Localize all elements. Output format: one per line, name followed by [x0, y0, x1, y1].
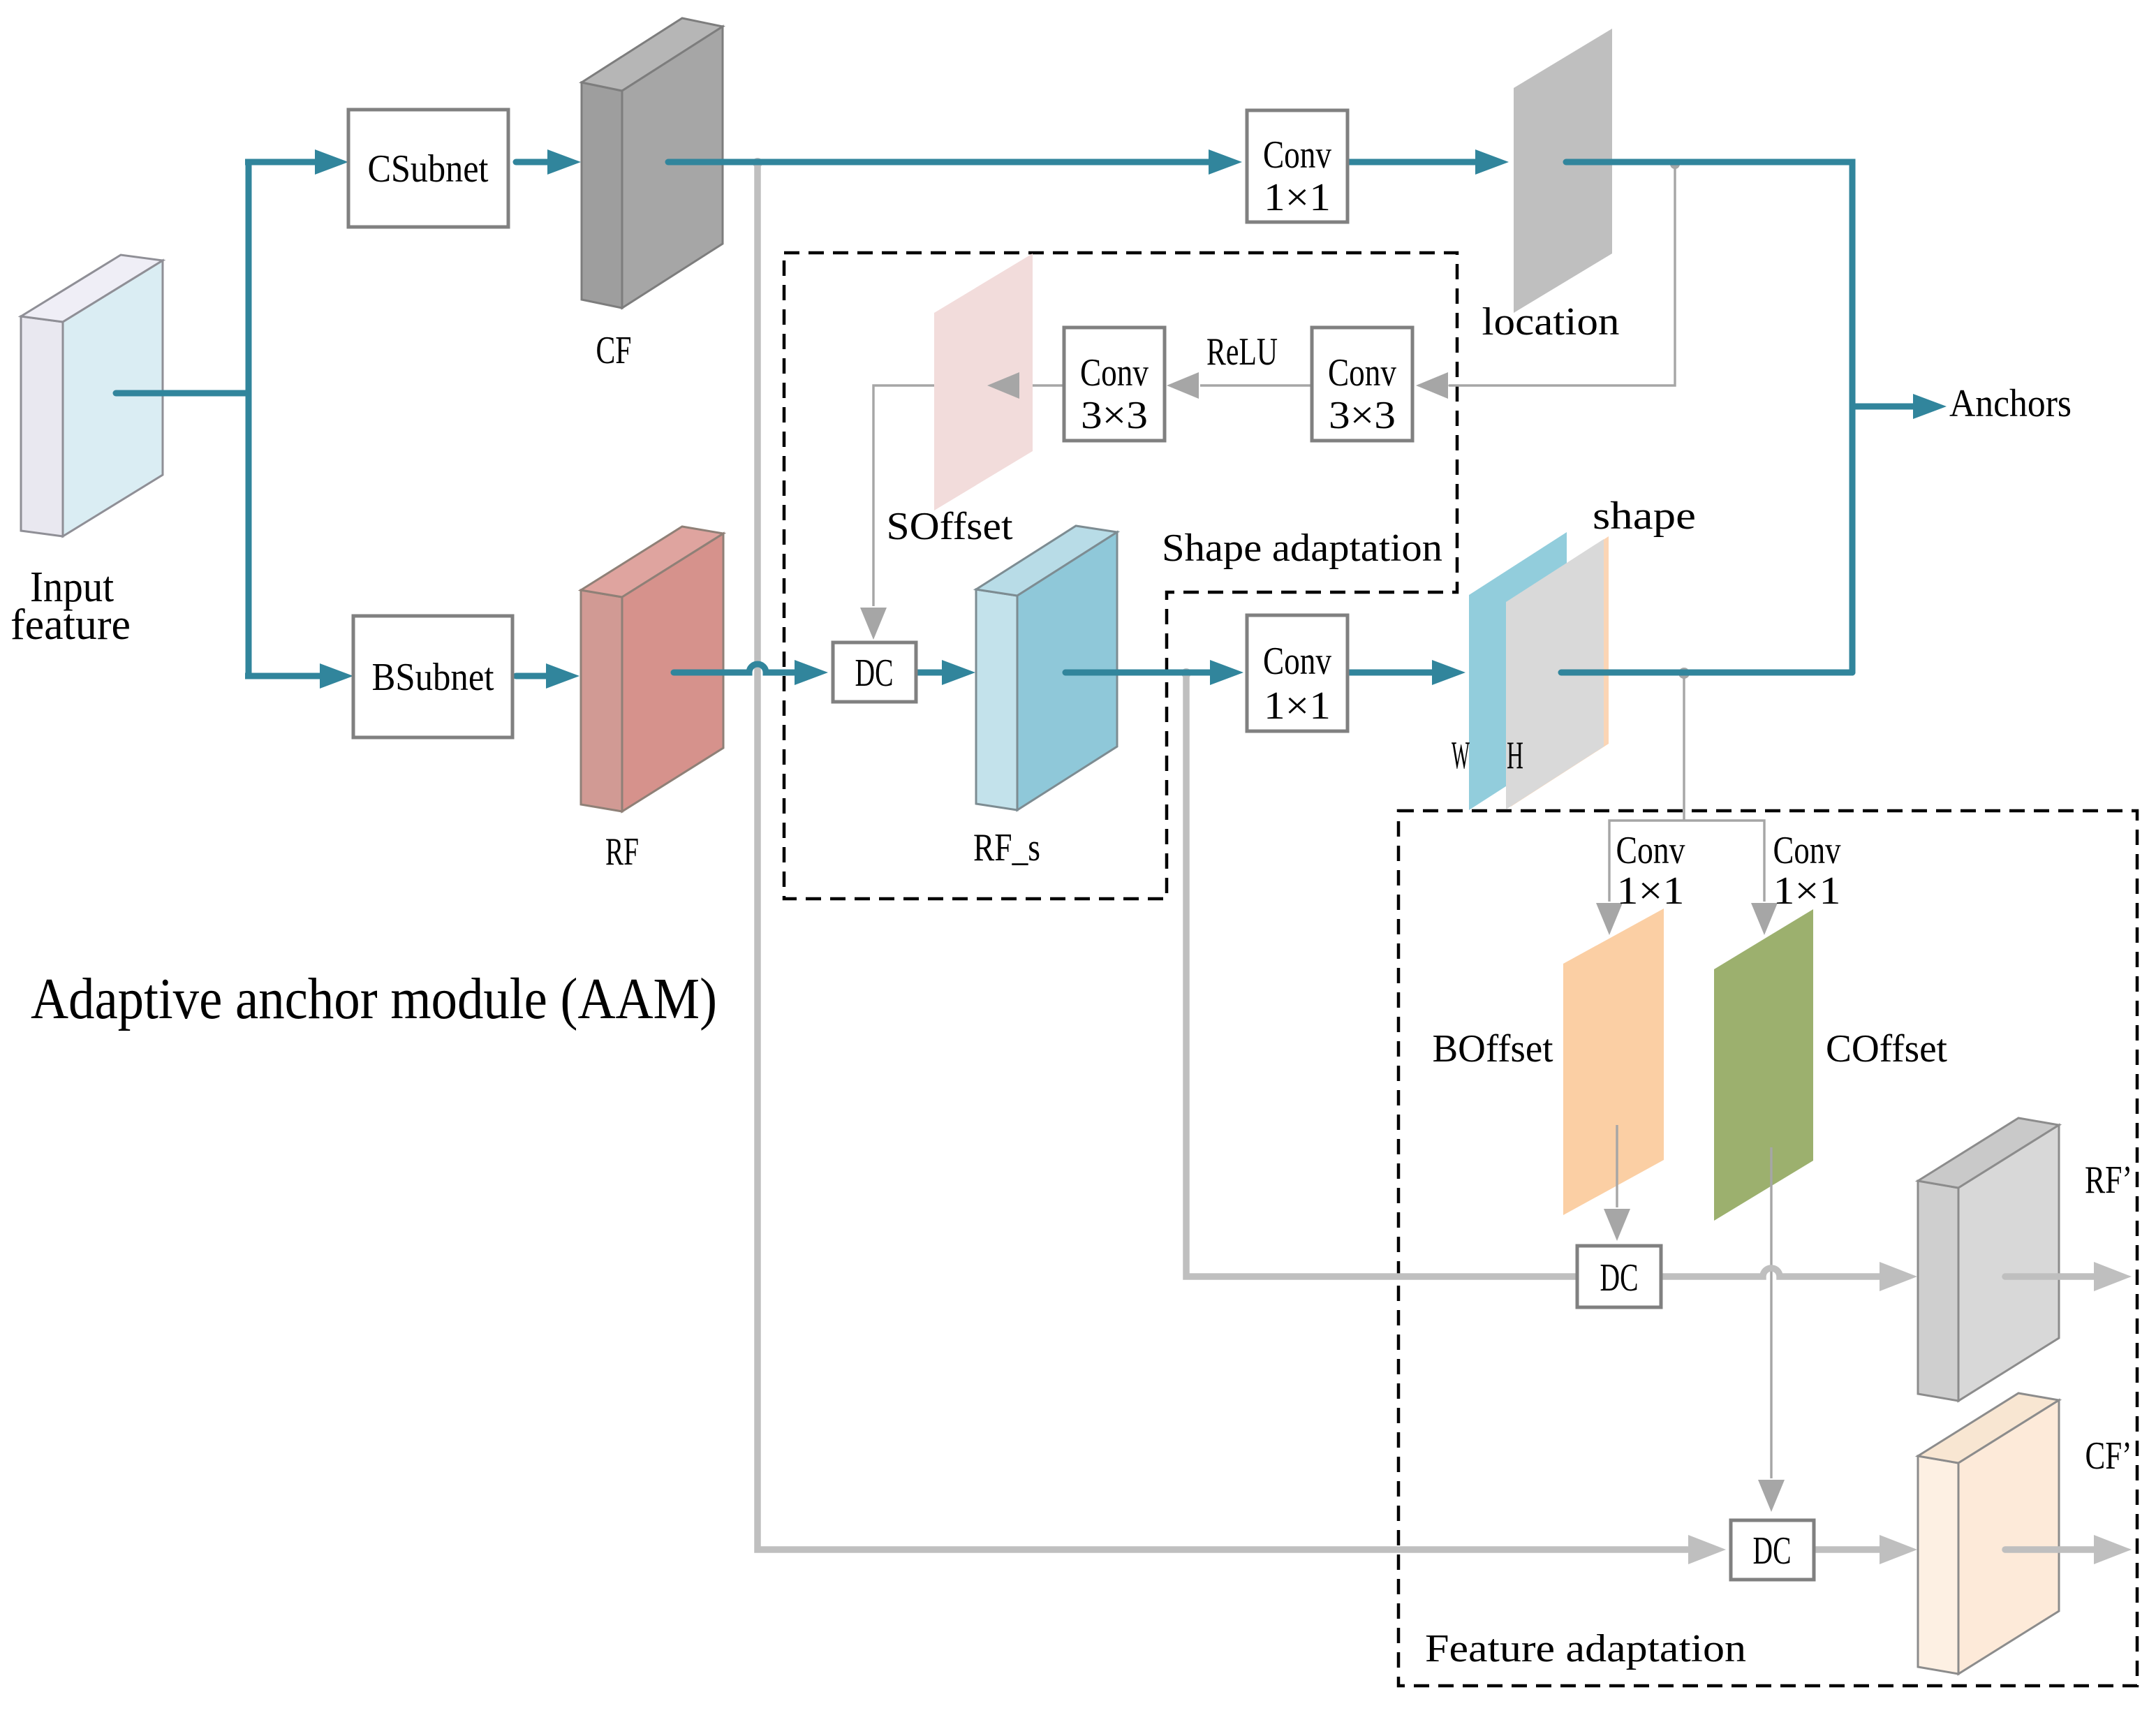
- arrowhead: into shape Conv1x1: [1210, 660, 1243, 685]
- wire: CF-prime output: [2005, 1546, 2094, 1553]
- arrowhead: CF-prime output: [2094, 1535, 2132, 1564]
- wire: trunk to CSubnet: [245, 159, 315, 166]
- box: Conv 1x1 (shape): [1247, 615, 1347, 731]
- wire: DC2 to CF-prime: [1814, 1546, 1880, 1553]
- wire: CF to Conv1x1 (top): [668, 159, 1209, 166]
- svg-text:Conv: Conv: [1616, 829, 1685, 872]
- BOffset sheet: [1563, 909, 1664, 1215]
- wire: trunk to BSubnet: [245, 673, 320, 679]
- svg-text:BSubnet: BSubnet: [372, 656, 494, 699]
- arrowhead: into DC2 (down): [1758, 1480, 1785, 1512]
- arrowhead: into RF_s slab: [942, 660, 975, 685]
- svg-text:Shape adaptation: Shape adaptation: [1162, 527, 1442, 570]
- wire: DC to RF_s: [916, 670, 942, 676]
- svg-text:Feature adaptation: Feature adaptation: [1425, 1627, 1746, 1670]
- arrowhead: into DC1 (down): [1604, 1209, 1630, 1241]
- peach sheet behind H: [1511, 536, 1609, 807]
- RF_s slab: [976, 526, 1117, 810]
- svg-text:CF’: CF’: [2085, 1434, 2132, 1478]
- arrowhead: into W sheet: [1432, 660, 1465, 685]
- arrowhead: into BOffset (down): [1596, 903, 1623, 935]
- SOffset sheet: [934, 253, 1033, 510]
- svg-text:DC: DC: [1600, 1256, 1639, 1300]
- arrowhead: CF drop line into DC2: [1688, 1535, 1726, 1564]
- svg-text:H: H: [1507, 734, 1523, 777]
- wire: CF feature drop line to DC2 (CF-prime path): [758, 163, 1688, 1550]
- svg-text:Conv: Conv: [1328, 351, 1396, 395]
- H sheet (gray): [1506, 539, 1604, 809]
- wire: shape Conv1x1 to W/H sheets: [1347, 670, 1432, 676]
- box: DC (shape adaptation): [833, 642, 916, 702]
- wire: left Conv3x3 to SOffset and down to DC: [873, 385, 1064, 606]
- arrowhead: into COffset (down): [1751, 903, 1778, 935]
- RF slab: [581, 527, 723, 811]
- arrowhead: into SOffset sheet: [987, 372, 1019, 399]
- arrowhead: into left Conv3x3: [1167, 372, 1199, 399]
- wire: RF_s drop line to DC1 (RF-prime path): [1186, 674, 1577, 1277]
- wire: location output down-left to Conv3x3: [1449, 166, 1675, 385]
- arrowhead: SOffset line into DC (down): [860, 608, 887, 640]
- arrowhead: into CSubnet: [315, 149, 348, 175]
- box: CSubnet: [348, 110, 508, 227]
- svg-text:1×1: 1×1: [1773, 869, 1841, 913]
- svg-text:CF: CF: [596, 329, 632, 372]
- svg-text:3×3: 3×3: [1081, 394, 1148, 437]
- wire: BOffset down to DC1: [1616, 1125, 1618, 1207]
- arrowhead: into BSubnet: [320, 663, 353, 689]
- COffset sheet: [1714, 909, 1813, 1221]
- arrowhead: into right Conv3x3: [1416, 372, 1448, 399]
- box: DC1 (RF-prime): [1577, 1246, 1661, 1307]
- wire: split vertical trunk: [246, 159, 252, 676]
- svg-text:W: W: [1452, 734, 1470, 777]
- wire: RF-prime output: [2005, 1273, 2094, 1280]
- wire: RF_s to Conv1x1 (shape): [1065, 670, 1210, 676]
- svg-text:BOffset: BOffset: [1433, 1027, 1553, 1071]
- box: Conv 3x3 (right): [1312, 328, 1412, 441]
- wire: split bar to two Conv 1x1: [1609, 821, 1764, 902]
- svg-text:COffset: COffset: [1826, 1027, 1947, 1071]
- wire: right Conv3x3 to left Conv3x3 (ReLU): [1200, 384, 1312, 386]
- svg-text:Conv: Conv: [1263, 133, 1331, 177]
- svg-text:Conv: Conv: [1263, 640, 1331, 683]
- arrowhead: into location sheet: [1475, 149, 1509, 175]
- svg-text:location: location: [1482, 300, 1620, 344]
- wire: location to right corner and down: [1566, 162, 1852, 672]
- wire: COffset down to DC2: [1770, 1147, 1772, 1478]
- wire: RF to DC with hop over gray line: [674, 664, 795, 672]
- location sheet: [1514, 29, 1612, 313]
- svg-text:RF: RF: [605, 830, 639, 874]
- svg-text:shape: shape: [1593, 494, 1696, 538]
- arrowhead: Anchors: [1913, 394, 1947, 419]
- svg-text:DC: DC: [1753, 1529, 1792, 1573]
- RF-prime slab: [1918, 1118, 2059, 1401]
- box: Conv 1x1 (top): [1247, 110, 1347, 222]
- svg-text:DC: DC: [855, 652, 894, 695]
- W sheet (blue): [1469, 532, 1567, 810]
- arrowhead: into RF slab: [546, 663, 579, 689]
- wire: branch to Anchors: [1852, 404, 1913, 410]
- svg-text:RF_s: RF_s: [973, 826, 1040, 869]
- CF-prime slab: [1918, 1393, 2059, 1674]
- box: BSubnet: [353, 616, 512, 737]
- arrowhead: RF-prime output: [2094, 1262, 2132, 1291]
- junction dot: CF drop on teal CF line: [753, 158, 762, 168]
- svg-text:1×1: 1×1: [1264, 684, 1331, 728]
- svg-text:feature: feature: [10, 601, 131, 649]
- box: Conv 3x3 (left): [1064, 328, 1165, 441]
- dashed region: Shape adaptation (L-shaped outline): [784, 253, 1457, 899]
- wire: shape sheets to right corner: [1561, 670, 1852, 676]
- CF slab: [582, 18, 723, 308]
- dashed region: Feature adaptation: [1398, 811, 2137, 1686]
- wire: BSubnet to RF: [516, 673, 546, 679]
- wire: top Conv1x1 to location: [1347, 159, 1475, 166]
- svg-text:Conv: Conv: [1773, 829, 1841, 872]
- wire: input feature to split point: [116, 390, 249, 397]
- svg-text:1×1: 1×1: [1617, 869, 1685, 913]
- svg-text:Adaptive anchor module (AAM): Adaptive anchor module (AAM): [31, 966, 717, 1031]
- svg-text:SOffset: SOffset: [887, 505, 1013, 548]
- arrowhead: into DC (shape adaptation): [795, 660, 828, 685]
- wire: CSubnet to CF: [516, 159, 547, 166]
- svg-text:Anchors: Anchors: [1949, 382, 2072, 425]
- wire: DC1 to RF-prime with hop: [1661, 1268, 1880, 1277]
- box: DC2 (CF-prime): [1731, 1520, 1814, 1580]
- svg-text:1×1: 1×1: [1264, 176, 1331, 219]
- arrowhead: into top Conv1x1: [1209, 149, 1242, 175]
- wire: shape drop line: [1683, 674, 1685, 821]
- junction dot: shape drop on teal line: [1678, 668, 1690, 679]
- arrowhead: into CF-prime slab: [1880, 1535, 1917, 1564]
- arrowhead: into RF-prime slab: [1880, 1262, 1917, 1291]
- svg-text:3×3: 3×3: [1329, 394, 1396, 437]
- svg-text:CSubnet: CSubnet: [368, 147, 489, 191]
- junction dot: location drop on teal line: [1670, 159, 1680, 169]
- junction dot: RF_s drop on teal line: [1181, 668, 1191, 678]
- input feature slab: [21, 255, 163, 536]
- svg-text:Conv: Conv: [1080, 351, 1149, 395]
- svg-text:ReLU: ReLU: [1206, 330, 1278, 374]
- arrowhead: into CF slab: [547, 149, 581, 175]
- svg-text:RF’: RF’: [2085, 1159, 2132, 1202]
